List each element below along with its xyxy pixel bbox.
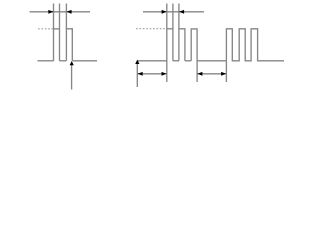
right waveform baseline start (137, 60, 167, 62)
left top dimension left-pointing arrowhead (66, 10, 71, 14)
right extension below group first edge (225, 61, 227, 82)
right up arrowhead (135, 60, 139, 64)
left waveform baseline between pulses (60, 60, 67, 62)
right tall pulse rising edge with lower extension (166, 4, 168, 83)
left dotted level line (38, 28, 54, 30)
left up arrowhead (70, 61, 74, 65)
left up-arrow shaft (71, 65, 73, 90)
right waveform quiet baseline (197, 60, 226, 62)
left extension line at x=59.5 (59, 4, 61, 61)
left top dimension line (30, 11, 91, 13)
right bottom dimension line B (197, 73, 226, 75)
left waveform echo pulse (66, 29, 72, 61)
right extension line at x=178.9 (178, 4, 180, 30)
right top dimension left-pointing arrowhead (179, 10, 184, 14)
right waveform pulse M2 (191, 29, 197, 61)
right dotted level line (136, 28, 167, 30)
right waveform pulse group of three (226, 29, 284, 61)
left waveform baseline after pulse (72, 60, 97, 62)
right waveform pulse M1 (179, 29, 185, 61)
right extension below M2 falling edge (196, 61, 198, 82)
right up-arrow shaft / extension at x=137.3 (136, 63, 138, 88)
right bottom dimension line A (137, 73, 167, 75)
right waveform baseline between M1 and M2 (185, 60, 191, 62)
right top dimension right-pointing arrowhead (162, 10, 167, 14)
right waveform baseline between tall pulse and M1 (173, 60, 179, 62)
left extension line at x=53.5 (53, 4, 55, 61)
left extension line at x=66.4 (65, 4, 67, 30)
right tall pulse top at threshold level (167, 28, 173, 30)
left tall pulse top at threshold level (54, 28, 60, 30)
right tall pulse falling edge (172, 4, 174, 61)
right top dimension line (143, 11, 204, 13)
left waveform baseline before pulse (38, 60, 54, 62)
bottom dimension B right-pointing arrowhead (221, 72, 226, 76)
left top dimension right-pointing arrowhead (48, 10, 53, 14)
bottom dimension A right-pointing arrowhead (162, 72, 167, 76)
bottom dimension B left-pointing arrowhead (197, 72, 202, 76)
bottom dimension A left-pointing arrowhead (138, 72, 143, 76)
